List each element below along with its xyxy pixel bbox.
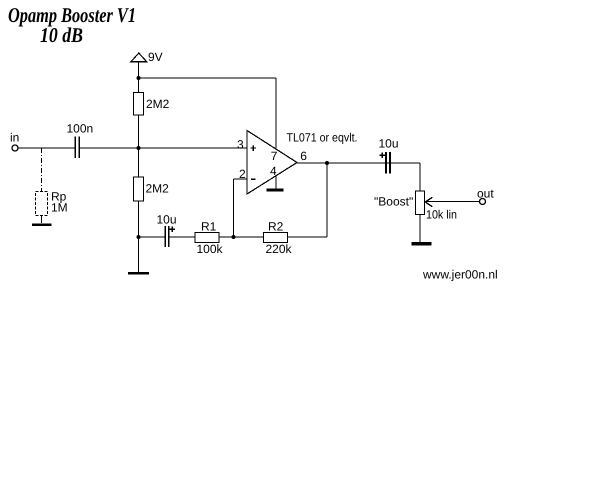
resistor Rp (dashed) xyxy=(36,148,68,223)
wire main input rail 100n to opamp pin3 xyxy=(80,147,247,149)
wire right corner down to pot xyxy=(419,163,421,191)
wire 2M2 top to input rail xyxy=(138,115,140,148)
capacitor C 10u (output, electrolytic) xyxy=(379,137,399,174)
svg-text:100n: 100n xyxy=(67,122,94,136)
wire wiper to out terminal xyxy=(427,201,480,203)
svg-text:10u: 10u xyxy=(379,137,399,151)
svg-text:www.jer00n.nl: www.jer00n.nl xyxy=(422,268,498,282)
wire 2M2 bottom to ground xyxy=(138,201,140,272)
svg-text:10k lin: 10k lin xyxy=(426,208,457,222)
svg-text:10u: 10u xyxy=(157,213,177,227)
wire R2 to feedback corner xyxy=(288,236,328,238)
svg-text:7: 7 xyxy=(271,149,278,163)
junction feedback node xyxy=(232,235,236,239)
junction bias node xyxy=(137,235,141,239)
svg-text:2: 2 xyxy=(239,167,246,181)
op-amp U1 TL071 xyxy=(237,131,358,195)
junction input rail xyxy=(137,146,141,150)
wire junction to 10u cap left xyxy=(139,236,165,238)
capacitor C 10u (input side, electrolytic) xyxy=(157,213,177,248)
wire feedback vertical to output xyxy=(326,163,328,237)
wire top junction to 2M2 top xyxy=(138,78,140,93)
svg-text:out: out xyxy=(477,187,494,201)
junction top rail xyxy=(137,76,141,80)
terminal in xyxy=(12,145,18,151)
svg-text:1M: 1M xyxy=(51,200,68,214)
svg-text:in: in xyxy=(10,131,19,145)
wire pin7 vertical xyxy=(275,78,277,149)
svg-text:2M2: 2M2 xyxy=(146,97,170,111)
wire pin4 to ground xyxy=(275,176,277,189)
ground (op-amp pin4) xyxy=(267,189,284,192)
wire pot bottom to ground xyxy=(419,215,421,243)
wire output rail xyxy=(297,162,420,164)
svg-text:"Boost": "Boost" xyxy=(374,195,413,209)
svg-text:TL071 or eqvlt.: TL071 or eqvlt. xyxy=(287,131,358,145)
resistor R 2M2 (top) xyxy=(134,93,170,116)
svg-text:6: 6 xyxy=(300,149,307,163)
svg-text:10 dB: 10 dB xyxy=(40,23,83,47)
ground (Rp) xyxy=(32,223,52,226)
svg-text:100k: 100k xyxy=(197,242,224,256)
wire 9V to top junction xyxy=(138,62,140,78)
junction output node xyxy=(325,161,329,165)
svg-text:4: 4 xyxy=(270,164,277,178)
svg-text:9V: 9V xyxy=(148,50,163,64)
wire pin2 stub xyxy=(234,178,248,180)
wire 10u cap to R1 xyxy=(170,236,196,238)
wire pin2 down to R1/R2 junction xyxy=(233,179,235,237)
svg-text:2M2: 2M2 xyxy=(146,182,170,196)
terminal out xyxy=(480,199,486,205)
potentiometer 10k lin xyxy=(374,191,457,222)
power 9V xyxy=(131,50,163,64)
resistor R2 220k xyxy=(264,219,293,256)
wire top rail horizontal to pin7 xyxy=(139,77,277,79)
wire input rail to 2M2 bottom xyxy=(138,148,140,177)
capacitor C 100n xyxy=(67,122,94,159)
wire main input rail left of 100n xyxy=(18,147,75,149)
wire R1 to R2 xyxy=(219,236,264,238)
svg-text:3: 3 xyxy=(237,137,244,151)
svg-text:R1: R1 xyxy=(201,219,217,233)
ground (bias divider) xyxy=(128,272,149,275)
svg-text:220k: 220k xyxy=(266,242,293,256)
ground (pot) xyxy=(412,242,432,245)
resistor R 2M2 (bottom) xyxy=(134,177,170,201)
svg-text:R2: R2 xyxy=(268,219,284,233)
resistor R1 100k xyxy=(195,219,224,256)
